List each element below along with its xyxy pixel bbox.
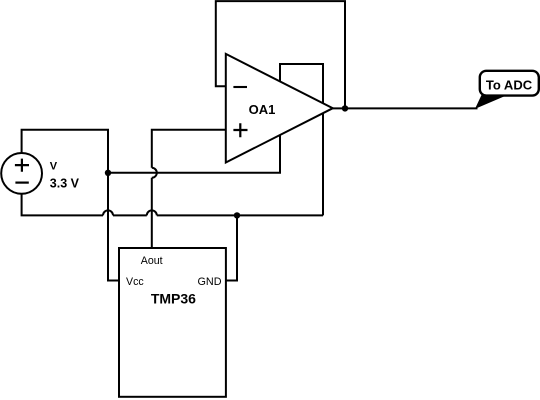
- To ADC callout tail: [476, 94, 506, 108]
- wire supply loop: node A right, up over op-amp, down to bottom rail corner: [108, 64, 323, 215]
- svg-text:GND: GND: [198, 276, 222, 288]
- wire GND: TMP36 GND pin right then up to node B: [226, 215, 237, 280]
- op-amp non-inverting input plus symbol: [233, 123, 247, 137]
- wire output: op-amp apex to To-ADC callout: [333, 107, 478, 109]
- node A junction dot: [105, 170, 111, 176]
- svg-text:3.3 V: 3.3 V: [50, 177, 80, 191]
- svg-text:OA1: OA1: [249, 102, 276, 117]
- wire V- bottom rail: source bottom down, right with two hops, to corner x=323: [22, 194, 323, 216]
- voltage source minus symbol: [15, 182, 28, 184]
- svg-text:V: V: [50, 161, 58, 173]
- wire hop: bottom rail over Aout wire: [147, 210, 157, 215]
- svg-text:Vcc: Vcc: [126, 276, 144, 288]
- wire feedback: op-amp - input left, up, across top, down to output node: [216, 1, 345, 108]
- wire V+ top: source top to corner then right and down to node A: [22, 130, 108, 173]
- wire hop: bottom rail over Vcc wire: [103, 210, 113, 215]
- voltage source V circle body: [1, 153, 42, 194]
- wire Vcc: node A down to TMP36 Vcc pin: [108, 173, 119, 281]
- voltage source plus symbol: [15, 159, 29, 172]
- wire hop: Aout wire over node-A horizontal wire: [152, 168, 157, 178]
- svg-text:To ADC: To ADC: [486, 78, 533, 93]
- To ADC callout bubble: [480, 71, 539, 96]
- svg-text:Aout: Aout: [141, 255, 163, 267]
- op-amp inverting input minus symbol: [233, 86, 247, 88]
- node B junction dot: [234, 212, 240, 218]
- svg-text:TMP36: TMP36: [151, 290, 196, 306]
- output node junction dot: [342, 105, 348, 111]
- op-amp U1 triangle body: [226, 54, 333, 163]
- wire Aout: TMP36 Aout pin up (hop over horizontal) then right to op-amp + input: [152, 130, 226, 248]
- TMP36 U2 body rectangle: [119, 248, 226, 397]
